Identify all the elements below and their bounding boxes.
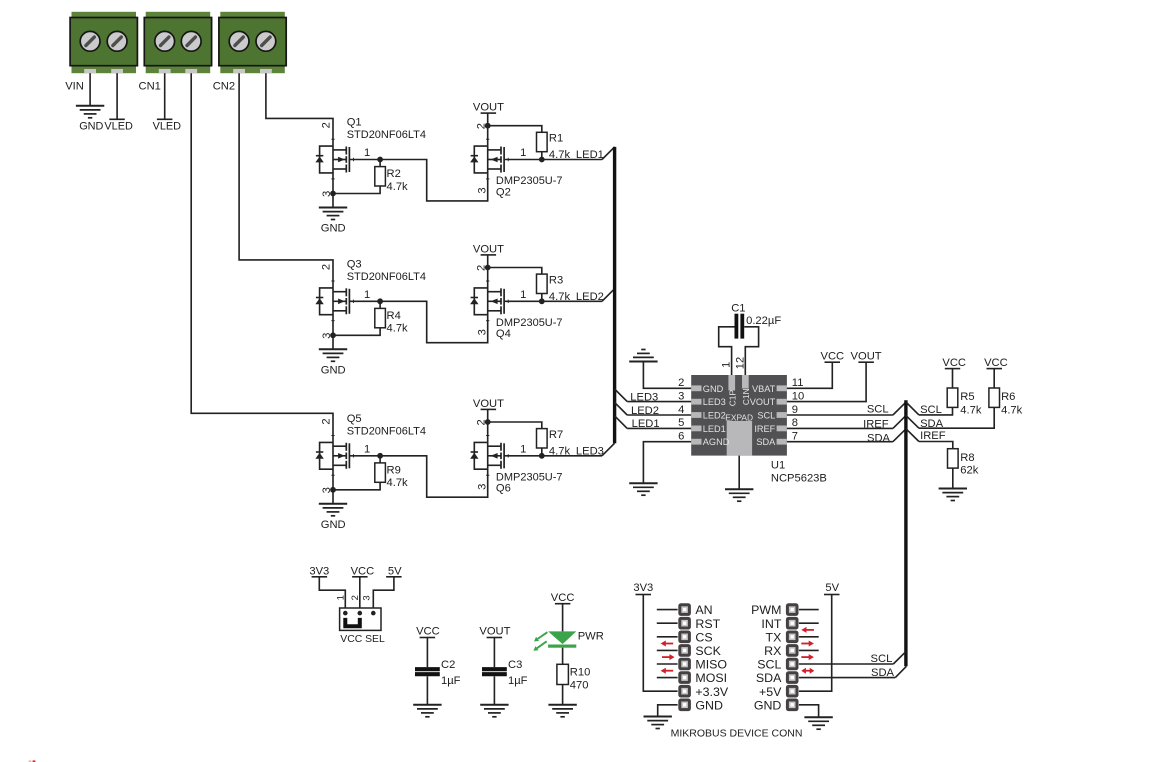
svg-text:VOUT: VOUT: [473, 243, 504, 255]
svg-text:C3: C3: [508, 659, 522, 671]
svg-text:GND: GND: [321, 223, 346, 235]
bus tap LED1: [602, 147, 615, 160]
node Q3 gate junction: [377, 298, 383, 304]
arrow SCK in: [665, 643, 673, 645]
svg-text:NCP5623B: NCP5623B: [771, 472, 827, 484]
wire C3 to ground: [493, 676, 495, 705]
ground GND (C3): [480, 704, 508, 706]
svg-text:MISO: MISO: [695, 658, 727, 672]
wire U1 EXPAD to ground: [738, 456, 740, 490]
wire R7 to gate: [541, 448, 543, 456]
LED emission arrows: [533, 632, 547, 651]
svg-text:3V3: 3V3: [309, 565, 329, 577]
svg-text:DMP2305U-7: DMP2305U-7: [496, 317, 563, 329]
wire CN1-1 to VLED: [164, 73, 166, 119]
transistor Q1 STD20NF06LT4: [315, 139, 380, 193]
svg-text:2: 2: [350, 595, 361, 600]
svg-text:SDA: SDA: [871, 667, 895, 679]
svg-text:VOUT: VOUT: [851, 351, 882, 363]
svg-text:EXPAD: EXPAD: [725, 412, 753, 422]
svg-text:3: 3: [477, 187, 489, 193]
svg-text:9: 9: [792, 404, 798, 416]
svg-text:VBAT: VBAT: [752, 384, 776, 394]
node Q5 gate junction: [377, 453, 383, 459]
jumper 1-2: [345, 618, 360, 626]
wire CN1-2 to Q5 drain: [191, 73, 333, 435]
svg-text:4: 4: [678, 404, 684, 416]
wire CN2-2 to Q1 drain: [266, 73, 333, 139]
bus tap SDA right: [906, 415, 919, 428]
svg-text:VIN: VIN: [65, 81, 84, 93]
svg-text:AGND: AGND: [703, 437, 730, 447]
wire gate-drive link: [380, 301, 488, 342]
svg-text:Q4: Q4: [496, 328, 511, 340]
wire mikrobus right GND: [799, 705, 819, 717]
svg-text:R7: R7: [549, 429, 563, 441]
wire R1 to gate: [541, 152, 543, 160]
wire C1 left lead: [719, 327, 735, 375]
svg-text:CN1: CN1: [139, 81, 161, 93]
arrow RX out: [801, 643, 809, 645]
wire VIN-2 to VLED: [116, 73, 118, 119]
wire VOUT to C3: [493, 638, 495, 668]
svg-text:PWM: PWM: [751, 603, 781, 617]
terminal block VIN: [70, 12, 137, 73]
svg-text:C1: C1: [731, 303, 745, 315]
svg-text:62k: 62k: [960, 465, 978, 477]
wire IREF to R8: [919, 442, 953, 449]
svg-text:R3: R3: [549, 274, 563, 286]
svg-text:CN2: CN2: [213, 81, 235, 93]
ground GND (mikrobus left): [644, 716, 672, 718]
svg-text:1: 1: [336, 595, 347, 600]
resistor R4: [379, 301, 381, 308]
svg-text:MIKROBUS DEVICE CONN: MIKROBUS DEVICE CONN: [671, 727, 803, 739]
arrow TX in: [806, 629, 814, 631]
bus tap SDA (mikrobus): [895, 666, 906, 677]
svg-text:C1N: C1N: [741, 388, 751, 405]
capacitor C1: [736, 314, 742, 339]
bus tap to U1 LED2: [615, 402, 628, 415]
wire U1 pin9 SCL: [787, 414, 893, 416]
wire VCC to C2: [426, 638, 428, 668]
svg-text:1: 1: [364, 147, 370, 159]
wire mikrobus left SCK: [657, 649, 678, 651]
wire mikrobus left RST: [657, 622, 678, 624]
wire VOUT to source: [487, 113, 489, 126]
wire mikrobus SCL to bus: [799, 663, 893, 665]
svg-text:1: 1: [720, 362, 732, 368]
wire source to ground: [332, 194, 334, 208]
svg-text:C1P: C1P: [727, 390, 737, 407]
arrow SDA bidir: [805, 670, 811, 672]
transistor Q4 DMP2305U-7: [470, 268, 542, 321]
bus tap SDA: [893, 429, 906, 442]
wire VCC to R6: [993, 369, 995, 388]
ground GND (EXPAD): [725, 488, 753, 490]
svg-text:VCC: VCC: [551, 592, 575, 604]
wire R3 to gate: [541, 294, 543, 302]
node Q1 gate junction: [377, 157, 383, 163]
svg-text:5: 5: [678, 417, 684, 429]
svg-text:LED1: LED1: [576, 149, 604, 161]
svg-text:LED3: LED3: [703, 397, 726, 407]
svg-text:VCC: VCC: [942, 357, 966, 369]
wire C2 to ground: [426, 676, 428, 705]
bus tap SCL (mikrobus): [893, 652, 906, 664]
wire SCL to R5: [919, 407, 953, 415]
ground GND (U1 pin6): [629, 482, 657, 484]
capacitor C2: [415, 669, 440, 674]
ground GND: [319, 207, 347, 209]
logo fragment: [29, 761, 32, 762]
svg-text:SDA: SDA: [756, 671, 782, 685]
ground GND: [319, 503, 347, 505]
node VOUT junction: [485, 265, 491, 271]
resistor R8: [948, 449, 959, 468]
svg-text:0.22µF: 0.22µF: [746, 315, 781, 327]
svg-text:12: 12: [735, 357, 747, 369]
svg-text:11: 11: [792, 377, 804, 389]
svg-text:1: 1: [364, 289, 370, 301]
wire R9 bottom to source: [333, 482, 380, 490]
svg-text:GND: GND: [695, 698, 723, 712]
terminal VLED (CN1): [157, 118, 173, 120]
wire R4 bottom to source: [333, 328, 380, 336]
wire SDA to R6: [919, 407, 994, 428]
arrow MOSI in: [665, 670, 673, 672]
svg-text:8: 8: [792, 417, 798, 429]
svg-text:C2: C2: [441, 659, 455, 671]
resistor R2: [379, 160, 381, 167]
svg-text:SDA: SDA: [867, 432, 891, 444]
wire VOUT to source: [487, 409, 489, 422]
LED D1 PWR: [548, 631, 576, 647]
wire mikrobus left CS: [657, 636, 678, 638]
svg-text:R10: R10: [570, 667, 591, 679]
svg-text:AN: AN: [695, 603, 712, 617]
wire source to R7: [488, 422, 542, 429]
svg-text:LED1: LED1: [632, 418, 660, 430]
svg-text:1: 1: [520, 289, 526, 301]
wire mikrobus PWM: [799, 609, 819, 611]
svg-text:5V: 5V: [388, 565, 402, 577]
svg-text:5V: 5V: [825, 582, 839, 594]
wire mikrobus left MISO: [657, 663, 678, 665]
ground GND (R8): [939, 488, 967, 490]
arrow SCL out: [801, 656, 809, 658]
wire VCC to R5: [952, 369, 954, 388]
svg-text:+5V: +5V: [759, 685, 782, 699]
svg-text:VOUT: VOUT: [473, 102, 504, 114]
wire gate-drive link: [380, 456, 488, 497]
node source junction: [330, 487, 336, 493]
wire LED2 to U1 pin4: [627, 414, 691, 416]
node VOUT junction: [485, 419, 491, 425]
resistor R10: [557, 664, 569, 684]
wire LED to R10: [562, 648, 564, 665]
svg-text:+3.3V: +3.3V: [695, 685, 728, 699]
svg-text:VOUT: VOUT: [750, 397, 776, 407]
svg-text:R2: R2: [387, 168, 401, 180]
svg-text:1: 1: [520, 443, 526, 455]
svg-text:STD20NF06LT4: STD20NF06LT4: [347, 129, 426, 141]
bus LED1/LED2/LED3: [613, 147, 616, 443]
svg-text:LED2: LED2: [576, 291, 604, 303]
svg-text:GND: GND: [321, 519, 346, 531]
ground GND: [319, 348, 347, 350]
ground GND (VIN): [76, 105, 104, 107]
svg-text:2: 2: [678, 377, 684, 389]
svg-text:R5: R5: [960, 391, 974, 403]
ground GND (C2): [413, 704, 441, 706]
svg-text:Q1: Q1: [347, 117, 362, 129]
wire gate to LED2 bus: [542, 300, 602, 302]
terminal VLED (VIN): [109, 118, 125, 120]
wire VOUT to U1 pin10: [787, 362, 866, 401]
wire gate to LED1 bus: [542, 159, 602, 161]
svg-text:1µF: 1µF: [508, 675, 528, 687]
wire gate-drive link: [380, 160, 488, 201]
wire mikrobus left MOSI: [657, 677, 678, 679]
resistor R3: [537, 274, 548, 293]
bus tap LED3: [602, 443, 615, 456]
wire VCC to LED: [562, 604, 564, 632]
svg-text:1µF: 1µF: [441, 675, 461, 687]
svg-text:IREF: IREF: [920, 430, 946, 442]
svg-text:LED2: LED2: [703, 411, 726, 421]
svg-text:R4: R4: [387, 310, 401, 322]
wire U1 pin8 IREF: [787, 427, 893, 429]
svg-text:2: 2: [321, 264, 333, 270]
svg-text:GND: GND: [754, 698, 782, 712]
svg-text:STD20NF06LT4: STD20NF06LT4: [347, 426, 426, 438]
node source junction: [330, 191, 336, 197]
resistor R6: [989, 388, 1000, 407]
resistor R5: [947, 388, 958, 407]
svg-text:1: 1: [364, 443, 370, 455]
transistor Q6 DMP2305U-7: [470, 422, 542, 475]
svg-text:DMP2305U-7: DMP2305U-7: [496, 175, 563, 187]
svg-text:SCL: SCL: [871, 653, 893, 665]
svg-text:3: 3: [362, 595, 373, 600]
svg-text:470: 470: [570, 680, 589, 692]
svg-text:STD20NF06LT4: STD20NF06LT4: [347, 271, 426, 283]
wire R8 to ground: [952, 468, 954, 488]
svg-text:VLED: VLED: [153, 121, 182, 133]
svg-text:SCL: SCL: [757, 658, 781, 672]
ground (U1 pin2, inverted): [629, 361, 657, 363]
wire 3V3 to pin1: [319, 577, 345, 613]
svg-text:GND: GND: [321, 365, 346, 377]
wire mikrobus INT: [799, 622, 819, 624]
svg-text:VCC SEL: VCC SEL: [340, 634, 385, 645]
op-amp U1 NCP5623B body: [691, 375, 787, 456]
wire U1 pin6 to ground: [643, 442, 691, 484]
bus tap SCL right: [906, 402, 919, 415]
terminal block CN2: [219, 12, 286, 73]
bus tap SCL: [893, 402, 906, 415]
wire U1 pin2 to ground: [643, 362, 691, 389]
svg-text:PWR: PWR: [578, 631, 604, 643]
wire R2 bottom to source: [333, 186, 380, 194]
wire source to ground: [332, 335, 334, 349]
svg-text:3V3: 3V3: [633, 582, 653, 594]
bus tap IREF: [893, 416, 906, 429]
svg-text:Q5: Q5: [347, 413, 362, 425]
svg-text:SCL: SCL: [757, 411, 775, 421]
ground GND (R10): [548, 704, 576, 706]
svg-text:4.7k: 4.7k: [1001, 404, 1023, 416]
svg-text:TX: TX: [766, 630, 782, 644]
svg-text:10: 10: [792, 391, 804, 403]
wire 3V3 to +3.3V: [643, 595, 677, 692]
svg-text:RST: RST: [695, 617, 720, 631]
connector VCC SEL header: [340, 608, 381, 630]
bus tap to U1 LED1: [615, 416, 628, 429]
wire R10 to ground: [562, 685, 564, 705]
wire mikrobus RX: [799, 649, 819, 651]
node VOUT junction: [485, 123, 491, 129]
node gate junction: [539, 453, 545, 459]
wire source to R3: [488, 268, 542, 275]
wire VIN-1 to GND: [89, 73, 91, 106]
svg-text:SCL: SCL: [867, 404, 889, 416]
arrow MISO out: [662, 656, 670, 658]
svg-text:3: 3: [477, 484, 489, 490]
transistor Q5 STD20NF06LT4: [315, 436, 380, 490]
wire LED3 to U1 pin3: [627, 401, 691, 403]
bus tap IREF right: [906, 429, 919, 442]
svg-text:R1: R1: [549, 133, 563, 145]
svg-text:VLED: VLED: [104, 121, 133, 133]
svg-text:LED3: LED3: [630, 391, 658, 403]
wire C1 right lead: [744, 327, 758, 375]
transistor Q2 DMP2305U-7: [470, 126, 542, 179]
svg-text:VCC: VCC: [820, 351, 844, 363]
svg-text:2: 2: [321, 122, 333, 128]
node gate junction: [539, 157, 545, 163]
svg-text:LED1: LED1: [703, 424, 726, 434]
wire 5V to +5V: [799, 595, 832, 692]
wire CN2-1 to Q3 drain: [239, 73, 333, 281]
svg-text:4.7k: 4.7k: [387, 181, 409, 193]
wire source to R1: [488, 126, 542, 133]
svg-text:GND: GND: [703, 384, 724, 394]
wire source to ground: [332, 490, 334, 504]
svg-text:2: 2: [321, 418, 333, 424]
svg-text:R6: R6: [1001, 391, 1015, 403]
wire LED1 to U1 pin5: [627, 427, 691, 429]
svg-text:CS: CS: [695, 630, 712, 644]
resistor R7: [537, 429, 548, 448]
svg-text:3: 3: [678, 391, 684, 403]
svg-text:SDA: SDA: [756, 437, 776, 447]
bus tap to U1 LED3: [615, 389, 628, 402]
wire mikrobus TX: [799, 636, 819, 638]
svg-text:3: 3: [477, 329, 489, 335]
svg-text:SCK: SCK: [695, 644, 721, 658]
node gate junction: [539, 298, 545, 304]
wire mikrobus left GND: [658, 705, 678, 717]
bus tap LED2: [602, 289, 615, 302]
resistor R9: [379, 456, 381, 463]
capacitor C3: [482, 669, 507, 674]
wire mikrobus SDA to bus: [799, 677, 895, 679]
svg-text:LED3: LED3: [576, 446, 604, 458]
connector mikrobus right header: [786, 603, 799, 711]
svg-text:VOUT: VOUT: [479, 625, 510, 637]
wire VCC to pin2: [359, 577, 361, 613]
svg-text:IREF: IREF: [863, 419, 889, 431]
svg-text:VCC: VCC: [984, 357, 1008, 369]
wire VCC to U1 pin11: [787, 362, 832, 388]
svg-text:4.7k: 4.7k: [387, 477, 409, 489]
connector mikrobus left header: [678, 603, 691, 711]
transistor Q3 STD20NF06LT4: [315, 281, 380, 335]
wire U1 pin7 SDA: [787, 441, 893, 443]
terminal block CN1: [144, 12, 211, 73]
resistor R1: [537, 132, 548, 151]
ground GND (mikrobus right): [804, 716, 832, 718]
svg-text:Q2: Q2: [496, 186, 511, 198]
svg-text:1: 1: [520, 147, 526, 159]
wire gate to LED3 bus: [542, 455, 602, 457]
wire VOUT to source: [487, 255, 489, 268]
svg-text:U1: U1: [771, 459, 785, 471]
svg-text:RX: RX: [764, 644, 781, 658]
svg-text:VCC: VCC: [351, 565, 375, 577]
wire 5V to pin3: [373, 577, 394, 613]
svg-text:7: 7: [792, 431, 798, 443]
svg-text:GND: GND: [79, 121, 103, 133]
svg-text:R9: R9: [387, 464, 401, 476]
svg-text:INT: INT: [761, 617, 781, 631]
svg-text:6: 6: [678, 431, 684, 443]
svg-text:Q6: Q6: [496, 483, 511, 495]
svg-text:IREF: IREF: [754, 424, 775, 434]
svg-text:LED2: LED2: [631, 405, 659, 417]
node source junction: [330, 332, 336, 338]
svg-text:4.7k: 4.7k: [960, 404, 982, 416]
wire mikrobus left AN: [657, 609, 678, 611]
svg-text:DMP2305U-7: DMP2305U-7: [496, 471, 563, 483]
svg-text:4.7k: 4.7k: [387, 323, 409, 335]
svg-text:Q3: Q3: [347, 258, 362, 270]
svg-text:MOSI: MOSI: [695, 671, 727, 685]
svg-text:VOUT: VOUT: [473, 398, 504, 410]
svg-text:VCC: VCC: [416, 625, 440, 637]
svg-text:R8: R8: [960, 452, 974, 464]
bus I2C: [904, 400, 907, 666]
